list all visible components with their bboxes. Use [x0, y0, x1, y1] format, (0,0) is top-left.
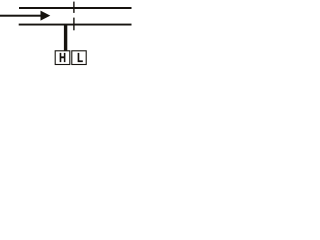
- svg-text:L: L: [77, 52, 83, 66]
- wire: lower bus line: [19, 24, 132, 26]
- svg-text:H: H: [59, 52, 66, 66]
- wire: thick drop bar to indicator: [64, 25, 67, 51]
- background: [0, 0, 135, 69]
- wire: signal-direction arrow shaft: [0, 15, 43, 17]
- wire: top bus line: [19, 7, 132, 9]
- node tick on top bus line: [73, 2, 74, 13]
- indicator box L: [72, 51, 86, 65]
- arrowhead (signal direction): [41, 11, 51, 21]
- node tick on lower bus line: [73, 18, 74, 31]
- indicator box H: [55, 51, 70, 65]
